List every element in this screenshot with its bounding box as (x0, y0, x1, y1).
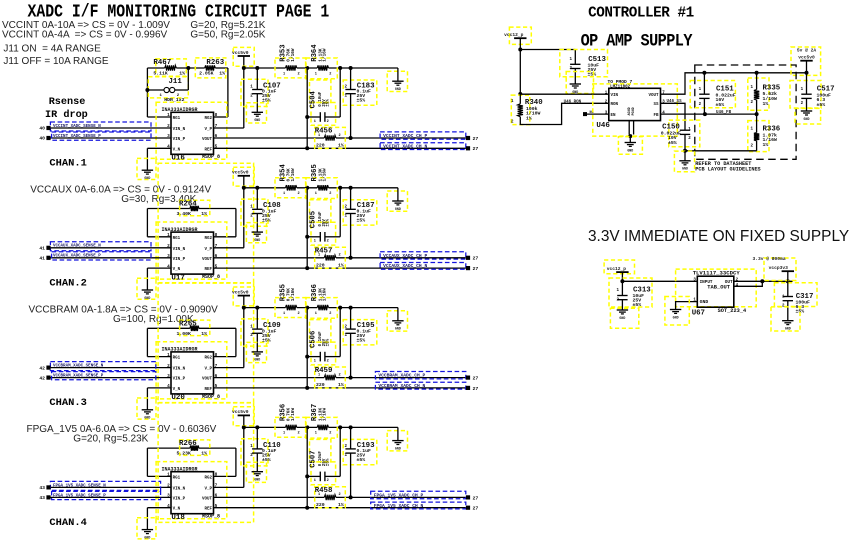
svg-text:U17: U17 (171, 274, 185, 282)
svg-text:vccp3v3: vccp3v3 (769, 265, 789, 271)
highlight box CH3 block (158, 283, 254, 403)
svg-text:27: 27 (473, 495, 479, 501)
junction vcc5v0 output (805, 71, 809, 75)
svg-text:±5%: ±5% (716, 102, 725, 108)
svg-text:1%: 1% (763, 101, 769, 107)
capacitor C313 (609, 278, 652, 310)
capacitor C507 (307, 427, 340, 484)
svg-text:VCCBRAM_XADC_SENSE_P: VCCBRAM_XADC_SENSE_P (53, 375, 104, 379)
svg-text:1: 1 (283, 192, 285, 196)
svg-text:5.23K: 5.23K (177, 451, 192, 457)
ground rail CH1 (387, 68, 407, 92)
svg-text:40: 40 (39, 136, 45, 142)
svg-text:1%: 1% (201, 211, 207, 217)
resistor R336 (748, 114, 781, 152)
wire Rg loop left CH4 (146, 448, 148, 476)
node VCCAUX_XADC_SENSE_N (50, 242, 151, 251)
ground C150 (674, 151, 694, 172)
svg-text:1%: 1% (763, 142, 769, 148)
svg-text:1: 1 (314, 240, 316, 244)
ground C108 (246, 223, 266, 243)
svg-text:1: 1 (315, 72, 317, 76)
svg-text:GND: GND (144, 296, 150, 300)
svg-text:5v @ 2A: 5v @ 2A (797, 48, 817, 54)
svg-text:2: 2 (327, 240, 329, 244)
svg-text:1%: 1% (338, 143, 344, 149)
svg-text:GND: GND (682, 167, 688, 171)
svg-text:GND: GND (673, 315, 679, 319)
ground C109 (246, 342, 266, 362)
junction C506 left CH3 (305, 355, 309, 359)
resistor R458 (315, 487, 346, 508)
IC U67 TLV1117 regulator (676, 269, 757, 317)
node FPGA_1V5_XADC_SENSE_P (52, 491, 161, 499)
svg-text:1/16W: 1/16W (291, 168, 296, 182)
wire VIN_P CH1 (51, 137, 172, 139)
svg-text:MSOP_8: MSOP_8 (202, 514, 220, 520)
svg-text:27: 27 (473, 266, 479, 272)
node FPGA_1V5_XADC_CH_P (371, 491, 466, 498)
svg-text:1/16W: 1/16W (323, 288, 328, 302)
svg-text:2: 2 (298, 192, 300, 196)
wire R340 to RON (520, 103, 609, 124)
svg-text:R467: R467 (153, 59, 171, 67)
wire filter rail CH2 (244, 187, 286, 189)
resistor R366 (306, 284, 337, 318)
wire mid vertical CH4 (306, 427, 308, 507)
resistor R264 (177, 200, 210, 217)
svg-text:REF: REF (204, 508, 212, 512)
pin 41 VCCAUX_XADC_SENSE_N (46, 246, 50, 250)
power vcc12_p op-amp supply (504, 27, 531, 44)
svg-text:VOUT: VOUT (202, 258, 213, 262)
svg-text:GND: GND (572, 90, 578, 94)
svg-text:vcc5v0: vcc5v0 (232, 289, 249, 295)
svg-text:2: 2 (339, 254, 341, 258)
svg-text:1: 1 (167, 353, 170, 358)
svg-text:GND: GND (700, 299, 709, 305)
svg-text:SS: SS (653, 103, 659, 107)
svg-text:220: 220 (316, 143, 325, 149)
svg-text:VCCINT 0A-4A => CS = 0V - 0.9: VCCINT 0A-4A => CS = 0V - 0.996V (2, 30, 168, 41)
svg-text:VCCAUX_XADC_CH_P: VCCAUX_XADC_CH_P (383, 253, 427, 259)
svg-text:GND: GND (785, 327, 791, 331)
ground C317 (771, 307, 800, 331)
svg-text:GND: GND (144, 176, 150, 180)
svg-text:V_N: V_N (173, 388, 181, 392)
highlight box CH4 block (158, 403, 254, 523)
junction C187 output CH2 (349, 256, 353, 260)
capacitor C108 (241, 188, 281, 232)
svg-text:VCCINT_XADC_CH_P: VCCINT_XADC_CH_P (383, 133, 427, 139)
junction C193 output CH4 (349, 495, 353, 499)
resistor R456 (315, 127, 346, 148)
wire C150 R336 ground tie (685, 150, 757, 152)
svg-text:1: 1 (283, 432, 285, 436)
power vcc5v0 output 5v @ 2A (791, 47, 821, 75)
svg-text:1/16W: 1/16W (323, 168, 328, 182)
svg-text:1%: 1% (338, 502, 344, 508)
pin 42 VCCBRAM_XADC_SENSE_N (46, 366, 50, 370)
svg-text:1%: 1% (526, 115, 532, 121)
capacitor C504 (307, 68, 340, 125)
wire mid vertical CH2 (306, 188, 308, 268)
svg-text:C505: C505 (310, 211, 318, 228)
svg-text:VCCBRAM_XADC_CH_N: VCCBRAM_XADC_CH_N (378, 383, 425, 389)
svg-text:VIN_P: VIN_P (173, 497, 186, 501)
svg-text:U16: U16 (171, 155, 185, 163)
op-amp U20 INA333 instrumentation amplifier (156, 342, 227, 402)
no-connect EN U46 (583, 112, 587, 116)
junction mid REF line CH1 (305, 146, 309, 150)
svg-text:2: 2 (329, 72, 331, 76)
svg-text:V_P: V_P (204, 487, 212, 491)
svg-text:5.11K: 5.11K (153, 70, 168, 76)
pin 27 VCCBRAM_XADC_CH_P (466, 376, 470, 380)
resistor R367 (306, 404, 337, 438)
svg-text:2: 2 (329, 192, 331, 196)
svg-text:vcc12_p: vcc12_p (504, 32, 524, 38)
ground rail CH2 (387, 188, 407, 212)
pin 27 VCCINT_XADC_CH_P (466, 136, 470, 140)
wire V_P CH2 (214, 247, 244, 249)
wire Rg loop right CH4 (235, 448, 237, 476)
svg-text:27: 27 (473, 256, 479, 262)
wire V_N CH3 (147, 387, 171, 389)
svg-text:VCCINT_XADC_SENSE_N: VCCINT_XADC_SENSE_N (53, 125, 101, 129)
svg-text:R265: R265 (179, 320, 197, 328)
ground U67 (665, 297, 689, 326)
junction R335 R336 FB (755, 112, 759, 116)
svg-text:VCCAUX_XADC_SENSE_P: VCCAUX_XADC_SENSE_P (53, 255, 101, 259)
svg-text:VOUT: VOUT (202, 138, 213, 142)
wire V_P CH3 (214, 367, 244, 369)
ground C313 (610, 308, 638, 328)
junction C513 tap (518, 48, 522, 52)
resistor R356 (275, 404, 306, 437)
svg-text:J11 ON = 4A RANGE: J11 ON = 4A RANGE (3, 44, 101, 55)
svg-text:1: 1 (318, 493, 320, 497)
junction C151 bottom FB (703, 112, 707, 116)
svg-text:REF: REF (204, 388, 212, 392)
svg-text:vcc5v0: vcc5v0 (798, 55, 815, 61)
pin 43 FPGA_1V5_XADC_SENSE_P (46, 495, 50, 499)
svg-text:TAB_OUT: TAB_OUT (707, 285, 730, 291)
svg-text:2: 2 (327, 120, 329, 124)
svg-text:1: 1 (318, 373, 320, 377)
wire V_P CH4 (214, 486, 244, 488)
wire vcc12_p vertical (519, 38, 521, 94)
svg-text:27: 27 (473, 386, 479, 392)
svg-text:2: 2 (339, 493, 341, 497)
svg-text:CONTROLLER #1: CONTROLLER #1 (588, 6, 694, 22)
capacitor C505 (307, 188, 340, 245)
svg-text:RG1: RG1 (173, 357, 181, 361)
pin 27 VCCBRAM_XADC_CH_N (466, 386, 470, 390)
capacitor C151 (690, 73, 736, 114)
svg-text:R340: R340 (525, 99, 543, 107)
pin 43 FPGA_1V5_XADC_SENSE_N (46, 485, 50, 489)
junction U46 pad (628, 134, 632, 138)
svg-text:1/16W: 1/16W (323, 408, 328, 422)
svg-text:VIN: VIN (611, 94, 619, 98)
svg-text:40: 40 (39, 126, 45, 132)
svg-text:±5%: ±5% (633, 302, 642, 308)
svg-text:220: 220 (316, 262, 325, 268)
ground V_N CH4 (137, 518, 156, 540)
svg-text:C506: C506 (310, 331, 318, 348)
wire V_P CH1 (214, 127, 244, 129)
svg-text:FPGA_1V5_XADC_SENSE_P: FPGA_1V5_XADC_SENSE_P (53, 494, 106, 498)
pin 42 VCCBRAM_XADC_SENSE_P (46, 376, 50, 380)
wire VIN_N CH4 (51, 486, 172, 488)
node VCCBRAM_XADC_CH_P (375, 372, 465, 379)
op-amp U17 INA333 instrumentation amplifier (156, 222, 227, 282)
svg-text:±5%: ±5% (326, 219, 330, 227)
svg-text:TLV1117_33CDCY: TLV1117_33CDCY (693, 269, 741, 276)
power vccp3v3 3.3v @ 800ma (753, 256, 797, 281)
svg-text:VOUT: VOUT (202, 378, 213, 382)
svg-text:2: 2 (329, 312, 331, 316)
svg-text:CHAN.4: CHAN.4 (49, 517, 86, 529)
junction C313 tap (620, 279, 624, 283)
svg-text:41: 41 (39, 246, 45, 252)
svg-text:8: 8 (215, 113, 218, 118)
svg-text:U18: U18 (171, 514, 185, 522)
pin 27 VCCAUX_XADC_CH_N (466, 266, 470, 270)
svg-text:8: 8 (215, 233, 218, 238)
junction vccp3v3 (786, 279, 790, 283)
svg-text:RG2: RG2 (204, 476, 212, 480)
svg-text:1: 1 (318, 134, 320, 138)
node VCCINT_XADC_CH_P (380, 132, 466, 139)
wire Rg loop top CH1 (147, 67, 164, 69)
wire VIN_N CH2 (51, 247, 172, 249)
capacitor C107 (241, 68, 281, 112)
svg-text:GND: GND (619, 316, 625, 320)
ground C110 (246, 462, 266, 482)
svg-text:vcc5v0: vcc5v0 (232, 409, 249, 415)
svg-text:41: 41 (39, 256, 45, 262)
svg-text:HDR_1x2: HDR_1x2 (164, 97, 184, 103)
svg-text:V_P: V_P (204, 248, 212, 252)
svg-text:1: 1 (314, 120, 316, 124)
svg-text:V_N: V_N (173, 148, 181, 152)
wire U67 GND (676, 302, 698, 310)
svg-text:PGND: PGND (632, 107, 636, 115)
svg-text:RG1: RG1 (173, 117, 181, 121)
svg-text:1: 1 (315, 432, 317, 436)
svg-text:1: 1 (283, 312, 285, 316)
wire Rg loop top CH2 (147, 208, 190, 210)
ground U46 pad (618, 136, 642, 154)
wire Rg loop top CH3 (147, 327, 190, 329)
svg-text:V_N: V_N (173, 508, 181, 512)
capacitor C183 (343, 68, 377, 138)
junction rail mid CH2 (305, 186, 309, 190)
resistor R457 (315, 247, 346, 268)
svg-text:V_P: V_P (204, 128, 212, 132)
junction R335 top (755, 71, 759, 75)
junction C183 output CH1 (349, 136, 353, 140)
svg-text:VIN_N: VIN_N (173, 128, 186, 132)
wire REF CH3 (214, 387, 466, 389)
svg-text:FPGA_1V5_XADC_SENSE_N: FPGA_1V5_XADC_SENSE_N (53, 484, 106, 488)
capacitor C517 (790, 73, 835, 111)
svg-text:U46_RON: U46_RON (564, 100, 582, 104)
svg-text:1%: 1% (179, 70, 185, 76)
svg-text:VCCBRAM_XADC_SENSE_N: VCCBRAM_XADC_SENSE_N (53, 365, 104, 369)
svg-text:INA333AIDRGR: INA333AIDRGR (162, 107, 198, 113)
wire VIN_P CH2 (51, 257, 172, 259)
node VCCINT_XADC_SENSE_N (50, 122, 151, 131)
junction rail C183 CH1 (349, 66, 353, 70)
svg-text:U46_FB: U46_FB (716, 111, 732, 115)
capacitor C193 (343, 427, 377, 497)
svg-text:CHAN.1: CHAN.1 (49, 158, 86, 170)
wire VOUT CH4 (214, 496, 325, 498)
wire U67 OUT (734, 280, 793, 282)
svg-text:RG2: RG2 (204, 237, 212, 241)
op-amp U16 INA333 instrumentation amplifier (156, 102, 227, 162)
junction C505 left CH2 (305, 235, 309, 239)
node FPGA_1V5_XADC_CH_N (371, 502, 466, 509)
power vcc5v0 CH4 (232, 407, 254, 426)
svg-text:GND: GND (254, 478, 260, 482)
resistor R335 (748, 73, 781, 114)
svg-text:2: 2 (298, 432, 300, 436)
svg-text:VIN_N: VIN_N (173, 487, 186, 491)
svg-text:vcc5v0: vcc5v0 (232, 50, 249, 56)
svg-text:EN: EN (611, 114, 617, 118)
svg-text:1: 1 (283, 72, 285, 76)
svg-text:1%: 1% (338, 262, 344, 268)
junction vcc5v0 rail CH4 (242, 425, 246, 429)
svg-text:R266: R266 (179, 440, 197, 448)
wire Rg loop top CH4 (147, 447, 190, 449)
svg-text:R335: R335 (763, 84, 781, 92)
svg-text:1: 1 (314, 359, 316, 363)
svg-text:SOT_223_4: SOT_223_4 (718, 308, 747, 314)
svg-text:GND: GND (144, 535, 150, 539)
svg-text:VCCINT_XADC_SENSE_P: VCCINT_XADC_SENSE_P (53, 135, 101, 139)
wire Rg loop right CH3 (235, 328, 237, 356)
ground rail CH4 (387, 427, 407, 451)
svg-text:±5%: ±5% (588, 72, 597, 78)
wire U67 TAB_OUT (734, 281, 763, 286)
svg-text:1: 1 (318, 254, 320, 258)
wire FB line (661, 113, 757, 115)
wire VOUT CH1 (214, 137, 325, 139)
svg-text:±5%: ±5% (357, 457, 366, 463)
wire V_N CH2 (147, 267, 171, 269)
resistor R365 (306, 164, 337, 198)
svg-text:GND: GND (627, 148, 633, 152)
capacitor C110 (241, 427, 281, 471)
resistor R353 (275, 44, 306, 77)
wire mid vertical CH3 (306, 308, 308, 388)
svg-text:1: 1 (315, 312, 317, 316)
svg-text:VIN_P: VIN_P (173, 378, 186, 382)
svg-text:27: 27 (473, 146, 479, 152)
junction rail mid CH3 (305, 306, 309, 310)
junction vcc5v0 rail CH2 (242, 186, 246, 190)
svg-text:1: 1 (315, 192, 317, 196)
svg-text:FPGA_1V5_XADC_CH_P: FPGA_1V5_XADC_CH_P (374, 493, 424, 499)
junction ground tie (683, 149, 687, 153)
svg-text:C151: C151 (716, 86, 734, 94)
wire REF CH2 (214, 267, 466, 269)
svg-text:3.40K: 3.40K (177, 211, 192, 217)
svg-text:CHAN.2: CHAN.2 (49, 277, 86, 289)
svg-text:GND: GND (395, 87, 401, 91)
svg-text:MSOP_8: MSOP_8 (202, 394, 220, 400)
svg-text:C507: C507 (310, 451, 318, 468)
pin 27 VCCINT_XADC_CH_N (466, 146, 470, 150)
jumper J11 (147, 68, 188, 103)
svg-text:VIN_N: VIN_N (173, 368, 186, 372)
svg-text:REF: REF (204, 148, 212, 152)
ground rail CH3 (387, 308, 407, 331)
junction rail C506 CH3 (338, 306, 342, 310)
svg-text:GND: GND (254, 358, 260, 362)
svg-text:1%: 1% (201, 451, 207, 457)
junction rail C107 CH1 (255, 66, 259, 70)
node VCCINT_XADC_SENSE_P (52, 132, 151, 140)
wire SS to C150 (661, 103, 686, 130)
svg-text:3.3v @ 800ma: 3.3v @ 800ma (753, 256, 786, 262)
ground V_N CH1 (137, 158, 156, 180)
junction C507 left CH4 (305, 474, 309, 478)
capacitor C150 (661, 120, 700, 151)
junction rail C187 CH2 (349, 186, 353, 190)
svg-text:VIN_P: VIN_P (173, 258, 186, 262)
svg-text:1: 1 (167, 233, 170, 238)
junction rail mid CH4 (305, 425, 309, 429)
svg-text:GND: GND (254, 118, 260, 122)
capacitor C506 (307, 308, 340, 365)
svg-text:27: 27 (473, 506, 479, 512)
svg-text:1: 1 (314, 479, 316, 483)
wire filter rail CH3 (244, 307, 286, 309)
pin 41 VCCAUX_XADC_SENSE_P (46, 256, 50, 260)
junction mid REF line CH2 (305, 266, 309, 270)
svg-text:220: 220 (316, 502, 325, 508)
wire REF CH4 (214, 507, 466, 509)
svg-text:1%: 1% (338, 382, 344, 388)
svg-text:±5%: ±5% (817, 102, 826, 108)
ground C107 (246, 103, 266, 123)
junction rail C110 CH4 (255, 425, 259, 429)
junction rail C193 CH4 (349, 425, 353, 429)
svg-text:vcc12_p: vcc12_p (607, 266, 627, 272)
pin 27 VCCAUX_XADC_CH_P (466, 256, 470, 260)
svg-text:IR drop: IR drop (45, 109, 88, 121)
svg-text:REF: REF (204, 268, 212, 272)
svg-text:G=50, Rg=2.05K: G=50, Rg=2.05K (190, 30, 265, 41)
resistor R459 (315, 367, 346, 388)
svg-text:VOUT: VOUT (202, 497, 213, 501)
svg-text:V_N: V_N (173, 268, 181, 272)
svg-text:RG1: RG1 (173, 237, 181, 241)
junction C151 top (702, 71, 706, 75)
capacitor C317 (774, 281, 817, 320)
svg-text:PCB LAYOUT GUIDELINES: PCB LAYOUT GUIDELINES (695, 167, 760, 173)
junction TAB_OUT (760, 279, 764, 283)
svg-text:220: 220 (316, 382, 325, 388)
svg-text:±5%: ±5% (326, 99, 330, 107)
svg-text:VOUT: VOUT (648, 94, 659, 98)
